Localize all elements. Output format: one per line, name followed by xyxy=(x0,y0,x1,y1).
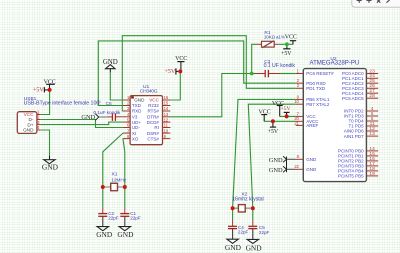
supply VCC symbol at R1 xyxy=(290,40,296,42)
capacitor C6 xyxy=(107,116,112,118)
wire X2 right dot down to C5 xyxy=(252,208,254,219)
svg-text:GND: GND xyxy=(225,243,242,252)
svg-text:22pF: 22pF xyxy=(130,216,141,221)
wire DTR# U1 pin13 to reset junction xyxy=(170,74,250,117)
svg-text:X1: X1 xyxy=(112,171,118,177)
svg-text:VCC: VCC xyxy=(149,98,159,103)
svg-text:VCC: VCC xyxy=(44,79,56,85)
wire VCC supply to U2 VCC pin7 xyxy=(280,115,296,117)
op-amp U1 CH340G body xyxy=(130,96,162,145)
resistor R1 xyxy=(257,43,262,45)
wire USB D- to U1 UD- xyxy=(41,120,123,128)
svg-text:GND: GND xyxy=(306,157,317,162)
svg-text:VCC: VCC xyxy=(175,56,187,62)
svg-text:19: 19 xyxy=(370,171,376,176)
supply VCC symbol at U1 xyxy=(177,61,184,63)
wire C3 to U2 RESET pin1 xyxy=(280,73,296,75)
toolbar overlay xyxy=(352,0,400,7)
toolbar icon close xyxy=(377,0,380,3)
microcontroller U2 ATMEGA328P-PU body xyxy=(303,69,366,182)
svg-text:22pF: 22pF xyxy=(259,230,270,235)
supply VCC symbol at USB xyxy=(46,83,55,85)
toolbar icon plus 1 xyxy=(357,0,362,3)
svg-text:+5V: +5V xyxy=(33,87,45,94)
svg-text:AIN1 PD7: AIN1 PD7 xyxy=(344,134,364,139)
ground symbol below USB1 xyxy=(49,155,51,159)
svg-text:+5V: +5V xyxy=(281,106,291,112)
net flag GND at C6 xyxy=(95,114,98,120)
svg-text:AREF: AREF xyxy=(306,123,318,128)
svg-text:CH340G: CH340G xyxy=(140,89,158,95)
svg-text:10: 10 xyxy=(294,99,299,104)
junction dot X2 left xyxy=(231,206,235,210)
capacitor C3 xyxy=(253,73,265,75)
svg-text:21: 21 xyxy=(294,120,299,125)
svg-text:DCD#: DCD# xyxy=(147,120,160,125)
capacitor C2 xyxy=(102,207,104,213)
svg-text:22pF: 22pF xyxy=(108,216,119,221)
svg-text:13: 13 xyxy=(370,131,376,136)
capacitor C4 xyxy=(232,219,234,226)
junction dot X1 left xyxy=(101,185,105,189)
net flag GND at U2 pin8 xyxy=(283,156,286,162)
svg-text:0.1 UF kondik: 0.1 UF kondik xyxy=(264,63,296,69)
wire R1 right lead to VCC node xyxy=(279,43,293,45)
capacitor C1 xyxy=(124,207,126,213)
svg-text:PC6 RESET#: PC6 RESET# xyxy=(306,71,334,76)
ground symbol below C1 xyxy=(119,227,130,231)
svg-text:GND: GND xyxy=(42,162,59,171)
svg-text:R232: R232 xyxy=(148,103,159,108)
junction dot at U2 pin20 xyxy=(271,119,275,123)
supply +5V symbol at U1 xyxy=(175,68,177,74)
svg-text:VCC: VCC xyxy=(285,34,297,40)
svg-text:13: 13 xyxy=(164,112,169,117)
wire U1 XO pin8 to crystal X1 right xyxy=(123,139,125,208)
svg-text:RXD: RXD xyxy=(132,109,142,114)
svg-text:GND: GND xyxy=(23,128,34,133)
supply VCC symbol at U2 pin20 xyxy=(261,114,267,116)
svg-text:GND: GND xyxy=(269,157,283,164)
wire VCC supply to U2 AVCC pin20 xyxy=(264,120,296,122)
junction dot U1 supply node xyxy=(178,69,182,73)
junction dot X2 right xyxy=(251,206,255,210)
svg-text:22: 22 xyxy=(294,164,299,169)
wire X2 left dot down to C4 xyxy=(232,208,234,219)
svg-text:CTS#: CTS# xyxy=(147,136,159,141)
svg-text:0.1uF kondik: 0.1uF kondik xyxy=(93,110,120,116)
svg-text:10: 10 xyxy=(164,128,169,133)
svg-text:14: 14 xyxy=(164,106,169,111)
connector USB1 body xyxy=(17,112,37,134)
svg-text:PB7 XTAL2: PB7 XTAL2 xyxy=(306,102,330,107)
ground symbol above U1 (rotated) xyxy=(109,69,111,73)
svg-text:USB-BType interface female 100: USB-BType interface female 100! xyxy=(24,101,101,107)
svg-text:PC5 ADC5: PC5 ADC5 xyxy=(342,96,364,101)
wire USB D+ to U1 UD+ xyxy=(41,122,123,125)
svg-text:TXD: TXD xyxy=(132,103,142,108)
wire U1 XI pin7 to crystal X1 left xyxy=(103,133,123,207)
wire R1 left lead down to reset junction xyxy=(252,44,257,73)
supply +5V symbol below U2 pin20 wire xyxy=(272,121,274,127)
U1 right pin stubs 16-9 xyxy=(163,99,171,101)
junction dot USB supply node xyxy=(48,88,52,92)
svg-text:GND: GND xyxy=(269,167,283,174)
svg-text:ATMEGA328P-PU: ATMEGA328P-PU xyxy=(310,60,360,67)
wire USB VCC to +5V node xyxy=(41,90,50,115)
svg-text:12MHz: 12MHz xyxy=(111,178,126,184)
supply VCC symbol at U2 pin7 xyxy=(277,105,283,107)
junction dot X1 right xyxy=(123,185,127,189)
svg-text:11: 11 xyxy=(164,123,169,128)
wire U2 XTAL1 pin9 to crystal X2 left xyxy=(233,99,296,208)
svg-text:PCINT5 PB5: PCINT5 PB5 xyxy=(338,174,364,179)
junction dot R1/VCC node xyxy=(285,42,289,46)
svg-text:28: 28 xyxy=(370,93,376,98)
ground symbol below C4 xyxy=(227,239,238,243)
svg-text:D+: D+ xyxy=(27,122,33,127)
svg-text:PD1 TXD: PD1 TXD xyxy=(306,86,326,91)
wire TXD net U1 pin2 to U2 PD0 xyxy=(98,41,295,106)
svg-text:RTS#: RTS# xyxy=(147,109,159,114)
ground symbol below C2 xyxy=(97,227,108,231)
svg-text:RI: RI xyxy=(154,125,159,130)
junction dot reset net xyxy=(250,72,254,76)
crystal X1 xyxy=(105,186,111,188)
svg-text:15: 15 xyxy=(164,101,169,106)
svg-text:16mhz krystal: 16mhz krystal xyxy=(232,197,263,203)
svg-text:GND: GND xyxy=(103,59,118,66)
toolbar icon plus 2 xyxy=(367,0,372,3)
ground symbol below C5 xyxy=(247,239,258,243)
U1 left pin stubs 1-8 xyxy=(123,99,130,101)
svg-text:VCC: VCC xyxy=(259,109,271,115)
toolbar icon arrow xyxy=(387,0,391,3)
svg-text:16: 16 xyxy=(164,95,169,100)
svg-text:+5V: +5V xyxy=(281,51,292,57)
supply +5V symbol below R1 node xyxy=(286,44,288,49)
svg-text:GND: GND xyxy=(134,98,145,103)
svg-text:22pF: 22pF xyxy=(238,230,249,235)
supply +5V symbol at USB xyxy=(43,87,45,92)
USB1 pin stubs xyxy=(37,114,41,116)
svg-text:GND: GND xyxy=(246,243,263,252)
svg-text:UD+: UD+ xyxy=(132,120,141,125)
svg-text:V3: V3 xyxy=(132,115,138,120)
svg-text:C6: C6 xyxy=(106,101,112,107)
svg-text:DSR#: DSR# xyxy=(147,131,160,136)
U2 left pin stubs xyxy=(296,73,304,75)
svg-text:GND: GND xyxy=(117,230,134,239)
U2 right pin stubs xyxy=(366,73,378,75)
svg-text:12: 12 xyxy=(164,117,169,122)
wire U2 XTAL2 pin10 to crystal X2 right xyxy=(248,104,295,208)
wire USB GND down to ground xyxy=(41,130,50,155)
junction dot at U2 pin7 xyxy=(285,114,289,118)
wire U1 VCC pin16 up to +5V node xyxy=(170,71,180,100)
svg-text:+5V: +5V xyxy=(164,68,176,75)
svg-text:GND: GND xyxy=(96,230,113,239)
svg-text:XO: XO xyxy=(132,136,139,141)
U1 pin1 marker square xyxy=(131,96,134,98)
net flag GND at U2 pin22 xyxy=(283,166,286,172)
svg-text:DTR#: DTR# xyxy=(147,115,159,120)
svg-text:10KΩ a1%: 10KΩ a1% xyxy=(264,34,285,39)
net flag tie line xyxy=(286,157,288,173)
svg-text:XI: XI xyxy=(132,131,136,136)
svg-text:+5V: +5V xyxy=(268,129,279,135)
wire RXD net U1 pin3 to U2 PD1 xyxy=(122,36,295,111)
wire U1 GND pin1 to ground symbol above xyxy=(110,72,123,100)
crystal X2 xyxy=(235,207,239,209)
svg-text:UD-: UD- xyxy=(132,125,140,130)
svg-text:GND: GND xyxy=(306,167,317,172)
capacitor C5 xyxy=(252,220,254,226)
